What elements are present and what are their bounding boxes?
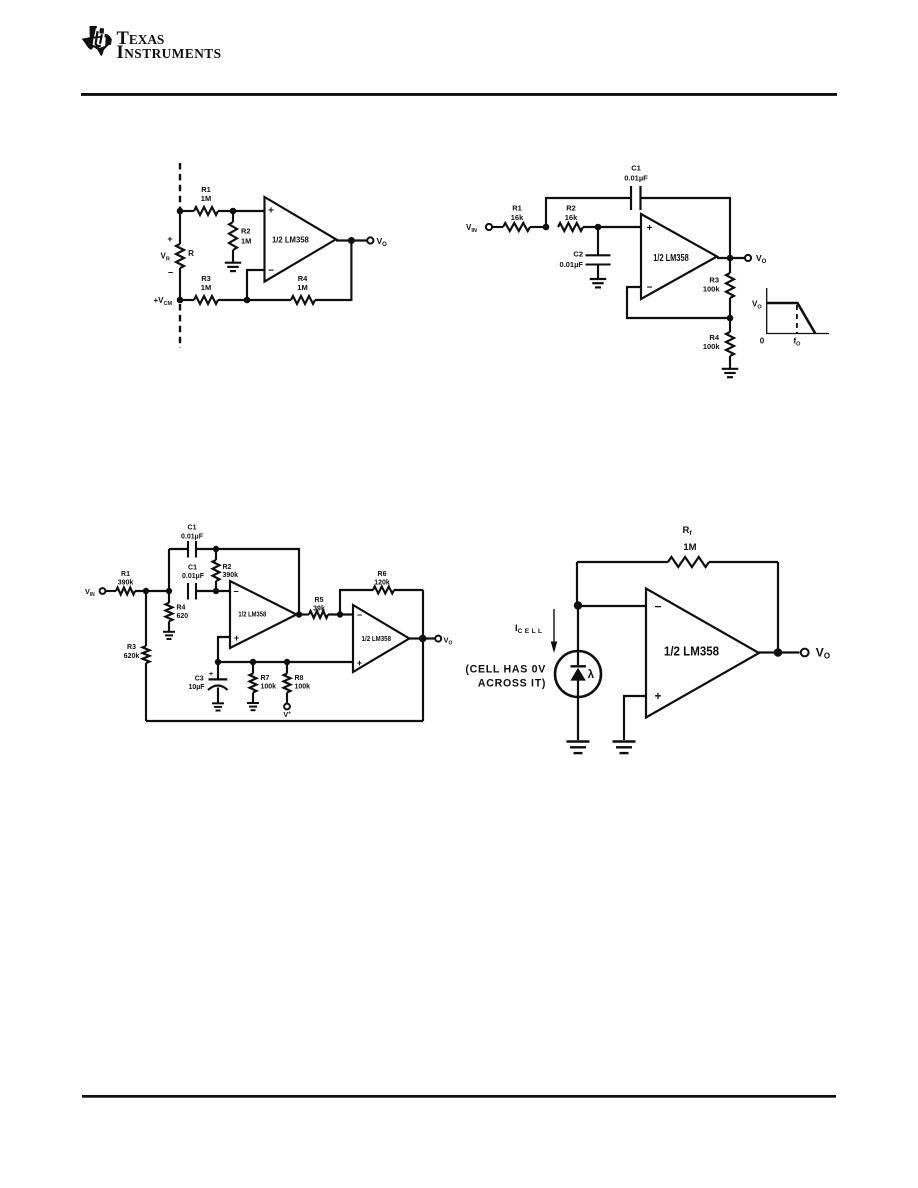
svg-text:620k: 620k bbox=[124, 653, 140, 660]
svg-text:0.01µF: 0.01µF bbox=[560, 260, 584, 269]
op-amp A2 1/2 LM358 bbox=[353, 605, 409, 672]
svg-text:R1: R1 bbox=[121, 571, 130, 578]
svg-text:0.01µF: 0.01µF bbox=[181, 534, 204, 541]
node top junction bbox=[213, 546, 219, 552]
svg-text:100k: 100k bbox=[703, 285, 721, 294]
svg-text:R6: R6 bbox=[378, 571, 387, 578]
wire C1 to output node bbox=[641, 198, 731, 258]
svg-text:−: − bbox=[268, 266, 274, 277]
node output bbox=[774, 648, 783, 657]
wire feedback to inverting input bbox=[627, 287, 730, 318]
svg-text:+: + bbox=[167, 234, 172, 244]
ground for R4 bbox=[163, 631, 175, 633]
resistor R2 16k bbox=[558, 223, 583, 231]
svg-text:C1: C1 bbox=[631, 164, 641, 173]
svg-text:+: + bbox=[268, 205, 274, 216]
svg-text:+: + bbox=[357, 658, 362, 668]
output terminal VO bbox=[745, 255, 751, 261]
TI logo Texas map symbol bbox=[82, 26, 112, 56]
svg-text:R2: R2 bbox=[241, 227, 251, 236]
resistor R7 100k bbox=[252, 662, 254, 674]
resistor R4 620 bbox=[168, 591, 170, 603]
resistor R1 390k bbox=[116, 588, 135, 595]
wire A1 noninverting to bottom rail bbox=[218, 637, 230, 662]
svg-text:R7: R7 bbox=[261, 675, 270, 682]
svg-text:39k: 39k bbox=[313, 605, 325, 612]
bottom feedback rail bbox=[146, 720, 423, 722]
node R5 R6 junction bbox=[337, 611, 343, 617]
svg-text:1M: 1M bbox=[297, 283, 307, 292]
wire R1 to input nodes bbox=[135, 590, 169, 592]
svg-text:+: + bbox=[654, 689, 661, 703]
svg-text:620: 620 bbox=[177, 613, 189, 620]
svg-text:100k: 100k bbox=[703, 342, 721, 351]
wire node A up to C1 bbox=[546, 198, 631, 227]
response graph axes bbox=[767, 288, 829, 334]
node R1 R2 junction bbox=[230, 208, 237, 215]
wire op-amp output bbox=[336, 239, 368, 241]
node A bbox=[543, 224, 550, 231]
svg-text:R2: R2 bbox=[223, 564, 232, 571]
svg-text:1/2 LM358: 1/2 LM358 bbox=[272, 236, 309, 245]
dashed boundary line bottom segment bbox=[179, 304, 181, 348]
svg-text:0.01µF: 0.01µF bbox=[182, 573, 205, 580]
svg-text:16k: 16k bbox=[565, 213, 578, 222]
svg-text:1M: 1M bbox=[241, 237, 251, 246]
resistor R5 39k bbox=[309, 611, 328, 618]
svg-text:1/2 LM358: 1/2 LM358 bbox=[653, 253, 689, 264]
wire C1 top to A1 output bbox=[196, 549, 299, 615]
node R8 bbox=[284, 659, 290, 665]
node B bbox=[595, 224, 602, 231]
svg-text:0: 0 bbox=[760, 337, 765, 346]
svg-text:1/2 LM358: 1/2 LM358 bbox=[238, 611, 266, 618]
TI logo ti knockout bbox=[93, 28, 106, 48]
capacitor C3 10uF polarized bbox=[217, 662, 219, 679]
wire input to R1 bbox=[106, 590, 117, 592]
svg-text:−: − bbox=[233, 587, 238, 597]
svg-text:C3: C3 bbox=[195, 676, 204, 683]
wire feedback left branch bbox=[576, 562, 578, 606]
node A2 output bbox=[419, 635, 427, 643]
node R3 junction bbox=[143, 588, 149, 594]
svg-text:R1: R1 bbox=[201, 185, 211, 194]
node A1 output bbox=[296, 611, 302, 617]
resistor R8 100k bbox=[286, 662, 288, 674]
resistor R2 390k bbox=[215, 549, 217, 560]
wire photodiode to ground bbox=[577, 696, 579, 740]
svg-text:R4: R4 bbox=[709, 333, 719, 342]
svg-text:(CELL HAS 0V: (CELL HAS 0V bbox=[465, 664, 546, 676]
ground for R4 bbox=[722, 368, 739, 370]
wire R4 to output branch bbox=[315, 299, 351, 301]
resistor R4 100k bbox=[729, 318, 731, 332]
svg-text:390k: 390k bbox=[223, 572, 239, 579]
wire C1 main to inverting input bbox=[196, 590, 230, 592]
ground for C2 bbox=[590, 278, 607, 280]
svg-text:R3: R3 bbox=[709, 276, 719, 285]
wire output bbox=[759, 651, 800, 653]
svg-text:120k: 120k bbox=[374, 580, 390, 587]
node R7 bbox=[250, 659, 256, 665]
wire to inverting input bbox=[577, 605, 646, 607]
svg-text:1/2 LM358: 1/2 LM358 bbox=[664, 643, 719, 658]
current arrow bbox=[553, 609, 555, 642]
resistor R4 1M bbox=[247, 299, 291, 301]
wire noninverting to ground bbox=[624, 696, 646, 740]
wire R1 to op-amp noninverting input bbox=[218, 210, 265, 212]
svg-text:+: + bbox=[234, 633, 239, 643]
svg-text:1M: 1M bbox=[201, 283, 211, 292]
ground for R2 bbox=[225, 262, 242, 264]
svg-text:10µF: 10µF bbox=[188, 684, 205, 691]
node output bbox=[727, 255, 734, 262]
svg-text:C1: C1 bbox=[188, 564, 197, 571]
photodiode symbol bbox=[571, 665, 587, 667]
svg-text:R2: R2 bbox=[566, 204, 576, 213]
svg-text:R4: R4 bbox=[298, 274, 308, 283]
wire R3 to feedback node bbox=[218, 299, 247, 301]
svg-text:R4: R4 bbox=[177, 604, 186, 611]
svg-text:R3: R3 bbox=[201, 274, 211, 283]
resistor R6 120k feedback bbox=[340, 590, 373, 615]
svg-text:C2: C2 bbox=[573, 250, 583, 259]
svg-text:C1: C1 bbox=[188, 525, 197, 532]
svg-text:ACROSS IT): ACROSS IT) bbox=[478, 678, 546, 690]
resistor R3 100k bbox=[729, 258, 731, 273]
wire op-amp output bbox=[717, 257, 745, 259]
op-amp U2 1/2 LM358 bbox=[641, 214, 717, 299]
V+ terminal bbox=[284, 704, 290, 710]
resistor R1 1M bbox=[194, 207, 218, 215]
svg-text:−: − bbox=[168, 268, 173, 278]
svg-text:R: R bbox=[188, 249, 194, 258]
resistor R3 1M bbox=[180, 299, 194, 301]
footer rule bbox=[82, 1095, 836, 1098]
TI wordmark TEXAS INSTRUMENTS bbox=[117, 29, 222, 63]
op-amp U4 1/2 LM358 bbox=[646, 589, 759, 718]
node top left bbox=[177, 208, 184, 215]
output terminal VO bbox=[367, 237, 373, 243]
node input junction bbox=[166, 588, 172, 594]
node feedback junction bbox=[244, 297, 251, 304]
ground for photodiode bbox=[567, 740, 590, 742]
svg-text:1M: 1M bbox=[683, 542, 696, 553]
wire left rail lower bbox=[179, 268, 181, 300]
op-amp U1 1/2 LM358 bbox=[265, 197, 337, 282]
wire A2 output bbox=[409, 637, 435, 639]
wire left rail upper bbox=[179, 211, 181, 244]
wire R5 to A2 inverting input bbox=[328, 613, 353, 615]
svg-text:λ: λ bbox=[588, 669, 595, 681]
node feedback divider bbox=[727, 315, 734, 322]
svg-text:+: + bbox=[647, 223, 653, 234]
svg-text:−: − bbox=[654, 600, 661, 614]
header rule bbox=[81, 93, 837, 96]
wire A1 output bbox=[297, 613, 310, 615]
resistor R1 16k bbox=[503, 223, 530, 231]
photodiode cell circle bbox=[555, 651, 601, 697]
svg-text:R3: R3 bbox=[127, 644, 136, 651]
wire up to C1 top feedback path bbox=[168, 549, 170, 591]
svg-text:−: − bbox=[357, 610, 362, 620]
output terminal VO bbox=[801, 649, 809, 657]
svg-text:R1: R1 bbox=[512, 204, 522, 213]
op-amp A1 1/2 LM358 bbox=[230, 581, 297, 648]
bottom bias rail bbox=[218, 661, 353, 663]
ground for noninverting input bbox=[613, 740, 636, 742]
capacitor C1 top 0.01uF bbox=[187, 541, 189, 558]
svg-text:0.01µF: 0.01µF bbox=[624, 174, 648, 183]
capacitor C2 0.01uF bbox=[597, 227, 599, 255]
resistor R2 1M bbox=[232, 211, 234, 222]
wire R6 down to output rail bbox=[422, 590, 424, 721]
photodiode wire upper bbox=[577, 606, 579, 665]
svg-text:1/2 LM358: 1/2 LM358 bbox=[362, 634, 391, 643]
node +VCM bbox=[177, 297, 184, 304]
node C3 bbox=[215, 659, 221, 665]
wire feedback right branch bbox=[777, 562, 779, 653]
capacitor C1 main 0.01uF bbox=[187, 583, 189, 600]
svg-text:100k: 100k bbox=[295, 684, 311, 691]
svg-text:390k: 390k bbox=[118, 580, 134, 587]
output terminal VO bbox=[435, 636, 441, 642]
source resistor R bbox=[176, 244, 184, 268]
wire to inverting input bbox=[247, 270, 265, 300]
svg-text:1M: 1M bbox=[201, 194, 211, 203]
resistor R3 620k bbox=[145, 591, 147, 646]
wire input to R1 bbox=[492, 226, 503, 228]
ground for C3 bbox=[212, 702, 224, 704]
svg-text:16k: 16k bbox=[511, 213, 524, 222]
svg-text:INSTRUMENTS: INSTRUMENTS bbox=[117, 43, 222, 63]
ground for R7 bbox=[247, 702, 259, 704]
svg-text:−: − bbox=[647, 283, 653, 294]
wire node to R1 bbox=[180, 210, 194, 212]
resistor Rf 1M feedback bbox=[577, 561, 668, 563]
svg-text:R8: R8 bbox=[295, 675, 304, 682]
node R2 bottom bbox=[213, 588, 219, 594]
capacitor C1 0.01uF bbox=[630, 186, 632, 210]
response curve bbox=[767, 303, 816, 334]
svg-text:100k: 100k bbox=[261, 684, 277, 691]
wire R1 to node A bbox=[530, 226, 546, 228]
wire R2 to op-amp bbox=[583, 226, 641, 228]
node inverting input bbox=[574, 601, 582, 609]
dashed fO marker bbox=[796, 305, 798, 333]
svg-text:R5: R5 bbox=[315, 597, 324, 604]
svg-text:+: + bbox=[209, 671, 213, 678]
node output bbox=[348, 237, 355, 244]
dashed boundary line top segment bbox=[179, 163, 181, 208]
